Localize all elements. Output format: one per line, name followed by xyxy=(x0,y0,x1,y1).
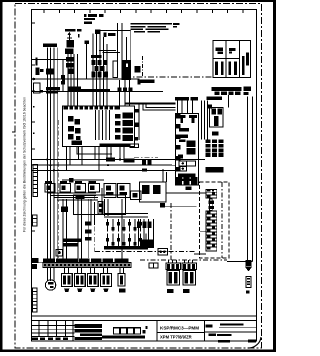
controller dense cluster xyxy=(178,141,196,159)
svg-text:XPM TP7/8/9/ZR: XPM TP7/8/9/ZR xyxy=(160,335,192,340)
frame tick marks left xyxy=(12,23,35,288)
wire elbow below A1 xyxy=(77,147,112,155)
heater E3 xyxy=(87,273,98,286)
wire stubs to relay box K18 xyxy=(163,170,167,182)
wire drop x228.3 xyxy=(227,95,229,107)
wire elbow x143 y110 xyxy=(143,104,176,110)
stub contact K18 out xyxy=(160,203,197,207)
label block dark mid-left xyxy=(63,239,83,247)
side contact c on A1 xyxy=(135,137,139,141)
arrow symbol in-feed xyxy=(67,32,80,40)
control box A1 right relay cluster xyxy=(115,113,133,142)
device bracket V0 xyxy=(113,61,117,77)
dash-dot vertical x171 xyxy=(170,203,172,260)
terminal row labels xyxy=(43,259,128,263)
wire bus line 3 xyxy=(32,169,164,171)
wire into chain y231.7 xyxy=(200,231,206,233)
wire horizontal bus y91 xyxy=(32,90,164,92)
wire horizontal y170.4 ext xyxy=(150,169,176,171)
rectifier output feet xyxy=(117,88,132,92)
aux box U2 cells xyxy=(212,109,223,127)
contactor band K2 xyxy=(69,87,82,92)
diamond mark bus3 xyxy=(142,168,147,171)
diode group xyxy=(108,219,141,232)
legend icon cell 2 xyxy=(229,48,236,54)
notes list text block xyxy=(131,23,180,33)
corner arc bottom-right xyxy=(248,337,261,348)
wire bus y79 xyxy=(32,78,140,80)
contactor K11 xyxy=(45,181,55,192)
wire right feeder 2 xyxy=(252,97,254,262)
bus L4 wires cluster xyxy=(118,23,127,61)
aux box U2 xyxy=(210,108,224,128)
margin dash-dot boundary xyxy=(15,4,262,349)
left label block above terminals xyxy=(32,258,39,269)
contact feet mark xyxy=(137,82,140,85)
title block right small text xyxy=(205,323,256,342)
dash-dot boundary line mid xyxy=(125,76,213,78)
arrow symbols mid chain xyxy=(208,199,214,211)
diode group rail bottom xyxy=(104,246,148,250)
wire into chain y254 xyxy=(194,253,206,255)
diode group lower xyxy=(108,234,147,248)
sensor top contacts xyxy=(137,222,152,229)
dash-dot segment y157 xyxy=(134,156,158,158)
controller coil b xyxy=(189,115,197,123)
control box A1 xyxy=(63,106,135,147)
legend icon cell 3 xyxy=(246,53,249,66)
boundary label xyxy=(138,80,155,84)
wire top drop xyxy=(130,31,132,65)
diode group rail top2 xyxy=(104,216,148,218)
connector XS1 xyxy=(166,260,181,293)
control box A1 bottom text xyxy=(71,141,129,147)
side contact b on A1 xyxy=(135,123,139,127)
terminal column left mid xyxy=(33,215,38,226)
legend table xyxy=(213,41,251,78)
motor M1 xyxy=(45,280,55,290)
lamp H1 xyxy=(245,260,253,294)
riser nub xyxy=(208,105,212,109)
wire x86.5 xyxy=(86,43,88,79)
contactor K12 xyxy=(60,181,71,192)
wire thick bus y104 xyxy=(125,102,176,104)
wire x63 drop xyxy=(62,59,64,91)
title block separator line xyxy=(32,315,257,317)
ground marks under heaters xyxy=(64,289,109,292)
dash-dot divider x222 xyxy=(221,182,223,258)
contactor band Q1 xyxy=(46,87,60,93)
wire drops to box U1 xyxy=(178,101,193,114)
wire risers to terminals xyxy=(63,199,122,262)
relay K15 xyxy=(104,184,116,198)
terminal column left lower xyxy=(33,288,38,312)
terminal strip X1 xyxy=(43,263,131,268)
svg-text:Für diese Zeichnung gelten die: Für diese Zeichnung gelten die Bestimmun… xyxy=(23,97,27,232)
control box A1 bottom small box xyxy=(130,144,139,148)
diode group lower dots xyxy=(106,238,142,245)
wire link cluster3-4 xyxy=(99,51,120,53)
wire bus line 2 xyxy=(32,164,173,166)
controller bottom band xyxy=(178,174,196,182)
feeder label row xyxy=(65,29,82,31)
bus L2 wires cluster xyxy=(68,54,78,106)
title block outer xyxy=(32,321,257,341)
transformer T1 contact blobs xyxy=(92,60,109,78)
relay K16 xyxy=(118,184,131,198)
controller dot boxes xyxy=(179,161,196,171)
terminal stack X4 upper xyxy=(206,189,217,198)
side contact a on A1 xyxy=(135,109,139,113)
heater E2 xyxy=(74,273,85,286)
wire drop x138.8 xyxy=(138,104,140,140)
heater wires short xyxy=(65,267,108,273)
connector XS2 xyxy=(182,260,197,293)
heater E4 xyxy=(100,273,111,286)
fuse F3 small xyxy=(61,75,65,85)
node labels right feeders xyxy=(212,87,252,96)
relay box K18 xyxy=(140,182,167,202)
dash-dot vertical mid xyxy=(93,195,95,252)
junction nub y79 xyxy=(62,79,65,82)
heater E1 xyxy=(61,273,72,286)
terminal strip X1b small xyxy=(149,263,158,268)
node header text K geprueft AC xyxy=(84,14,103,24)
svg-text:KSP/RMC3—PMM: KSP/RMC3—PMM xyxy=(160,326,199,331)
contactor K14 xyxy=(89,181,100,192)
wire to strip from frame xyxy=(32,262,44,264)
transformer T1 wires xyxy=(93,31,107,107)
junction dot xyxy=(33,78,36,81)
motor M1 wires xyxy=(47,267,54,281)
controller box U1 xyxy=(176,114,199,186)
bus L1 label xyxy=(43,44,57,47)
wire y180 xyxy=(62,179,104,181)
company logo squares xyxy=(102,326,148,339)
relay contact on bus K3 xyxy=(106,157,135,162)
bus y91 thick segment xyxy=(70,89,110,92)
switch S1 top chain xyxy=(95,29,116,37)
control box A1 inner wires xyxy=(96,110,110,140)
node label row upper right xyxy=(175,96,222,100)
wire mid vertical with contacts xyxy=(85,199,92,258)
meter P1 box left xyxy=(34,83,41,93)
sensor wires xyxy=(139,219,154,247)
controller coil a xyxy=(178,115,186,123)
legend vertical text strips xyxy=(215,56,244,75)
wire to lamp right xyxy=(227,261,253,263)
transformer T1 label xyxy=(91,55,102,58)
drawing frame xyxy=(32,10,257,342)
terminal strip X0 left edge xyxy=(33,165,38,197)
node tap label xyxy=(85,41,90,45)
sensor bottom block xyxy=(140,240,154,249)
sub box lower xyxy=(74,195,126,215)
aux dark box left xyxy=(61,207,68,213)
control box A1 top terminal row xyxy=(64,106,121,109)
diode group rail top xyxy=(104,213,148,215)
title block dense revision text cells xyxy=(32,324,102,340)
breaker chain Q2 xyxy=(65,40,74,74)
wire vertical x101.8 xyxy=(101,188,103,215)
wire right feeder 1 xyxy=(247,97,249,262)
legend icon cell 1 xyxy=(216,48,224,54)
frame dots xyxy=(33,106,35,108)
wire elbow x146 y107.6 xyxy=(146,104,176,108)
label vertical F0 xyxy=(36,58,44,93)
controller bar rows xyxy=(179,128,189,142)
rectifier V1 slab xyxy=(122,60,131,80)
aux small box below xyxy=(212,132,218,136)
relay grid label xyxy=(206,167,224,172)
wire horizontal y165 ext xyxy=(150,164,176,166)
wire staircase routing xyxy=(47,193,98,200)
U1 left edge terminal cells xyxy=(176,114,181,182)
diode group dots xyxy=(106,222,142,230)
contact marks on y180 xyxy=(69,178,74,183)
rectifier output wires xyxy=(119,80,129,106)
wire risers to relay grid xyxy=(202,101,208,140)
terminal stack X4 lower xyxy=(206,211,217,251)
control box A1 left relay cluster xyxy=(68,116,81,140)
bus L1 wires cluster xyxy=(47,48,57,263)
wire into chain y193 xyxy=(166,192,206,194)
dash-dot horizontal lower 2 xyxy=(140,259,227,261)
valve Y1 xyxy=(118,267,126,292)
contactor K13 xyxy=(75,181,86,192)
frame tick marks top xyxy=(44,10,243,14)
terminal chain box dashed xyxy=(200,182,230,258)
breaker on bus F4 xyxy=(142,159,152,165)
fuse block F1 xyxy=(46,68,55,74)
fuse label F1 xyxy=(40,69,44,72)
junction box small xyxy=(56,249,63,256)
junction dots on buses xyxy=(46,159,164,172)
dash-dot vertical x142.5 xyxy=(142,56,144,77)
dash-dot horizontal lower 1 xyxy=(95,251,197,253)
wire drops from box A1 to buses xyxy=(67,147,125,171)
wire bus line 1 xyxy=(32,159,206,161)
module box A3 xyxy=(158,249,167,255)
dark module A2 xyxy=(176,177,198,190)
rectifier label xyxy=(135,66,141,73)
wire top link xyxy=(100,30,131,32)
relay grid K5 xyxy=(206,139,224,157)
wire stub from frame y59 xyxy=(32,58,73,60)
dash-dot vertical left xyxy=(58,120,60,258)
relay K17 xyxy=(131,191,142,200)
